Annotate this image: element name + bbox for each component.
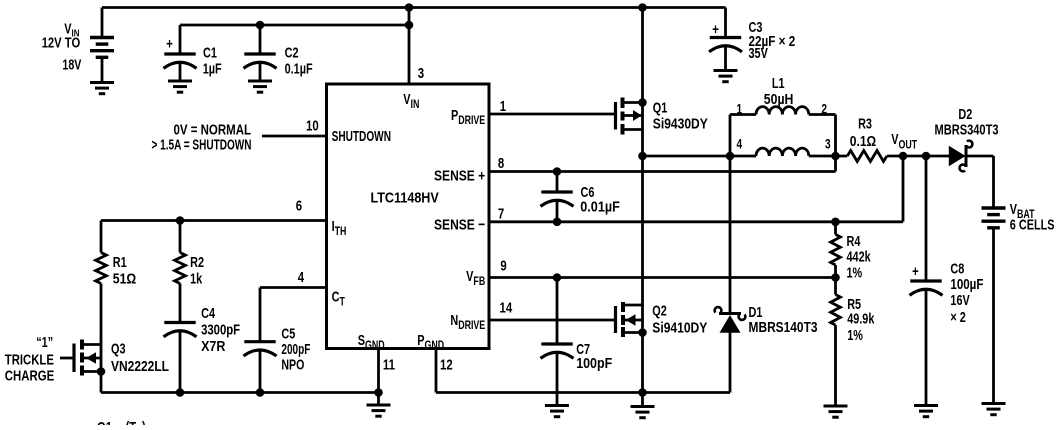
wire L1 top-left link [730, 113, 756, 116]
wire R2 to C4 [179, 284, 182, 323]
svg-text:C3: C3 [749, 18, 763, 35]
svg-text:+: + [912, 262, 919, 279]
svg-text:Q1: Q1 [97, 418, 112, 425]
capacitor C7 100pF [541, 344, 574, 358]
svg-text:C8: C8 [950, 260, 964, 277]
node C6 bottom [553, 218, 562, 227]
node C7 tap on VFB [553, 273, 562, 282]
wire R5 bottom lead [834, 325, 837, 406]
svg-text:1%: 1% [847, 264, 863, 281]
wire D2 cathode to VBAT [966, 155, 994, 158]
capacitor C8 100uF [910, 281, 943, 295]
svg-text:C1: C1 [203, 44, 217, 61]
ground (C8) [914, 406, 938, 417]
node Q3 source/body tie [97, 367, 106, 376]
transistor Q3 VN2222LL NMOS [72, 344, 75, 373]
svg-text:0.1µF: 0.1µF [285, 60, 313, 77]
svg-text:0.1Ω: 0.1Ω [850, 134, 877, 150]
svg-text:8: 8 [498, 154, 505, 171]
svg-text:SHUTDOWN: SHUTDOWN [332, 128, 391, 145]
svg-text:R1: R1 [113, 253, 127, 270]
svg-text:C6: C6 [581, 183, 595, 200]
node junction rail1/pin3 drop [405, 3, 414, 12]
capacitor C2 0.1uF [244, 54, 277, 68]
wire PDRIVE pin 1 to Q1 gate [489, 113, 616, 116]
svg-text:0V = NORMAL: 0V = NORMAL [174, 123, 252, 139]
svg-text:11: 11 [383, 356, 395, 373]
svg-text:VN2222LL: VN2222LL [111, 359, 169, 375]
svg-text:C2: C2 [285, 44, 299, 61]
resistor R4 442k [831, 234, 841, 265]
svg-text:Q1: Q1 [653, 99, 667, 116]
wire R4 top lead [834, 222, 837, 235]
diode D1 MBRS140T3 [715, 307, 746, 332]
wire VIN top rail [102, 6, 726, 9]
wire power ground rail [436, 391, 730, 394]
resistor R3 0.1ohm [847, 151, 887, 162]
diode D2 MBRS340T3 [949, 141, 972, 172]
svg-text:4: 4 [737, 136, 743, 152]
svg-text:1µF: 1µF [203, 60, 222, 77]
node Q2 ground tap [638, 388, 647, 397]
ground (R5) [824, 406, 848, 417]
svg-text:× 2: × 2 [950, 308, 965, 325]
svg-text:MBRS140T3: MBRS140T3 [749, 320, 818, 336]
svg-text:6: 6 [296, 197, 302, 214]
svg-text:MBRS340T3: MBRS340T3 [935, 122, 999, 138]
wire ITH rail pin 6 [101, 219, 327, 222]
wire bypass rail (C1/C2) [180, 24, 409, 27]
wire D1 anode lead [729, 331, 732, 393]
ground (C3) [714, 71, 738, 82]
svg-text:X7R: X7R [201, 339, 226, 355]
transistor Q2 Si9410DY NMOS [614, 306, 617, 333]
wire R3 to VOUT [887, 155, 952, 158]
ground (C2) [248, 81, 272, 92]
svg-text:+: + [712, 20, 719, 37]
wire R1 to Q3 drain [100, 284, 103, 393]
node R4/R5 junction VFB [831, 273, 840, 282]
capacitor C4 3300pF [164, 323, 197, 337]
svg-text:TRICKLE: TRICKLE [5, 352, 54, 368]
capacitor C3 22uF x2 [709, 38, 742, 52]
wire R4/R5 link [834, 265, 837, 295]
node junction rail1/Q1 source [638, 3, 647, 12]
wire L1 bottom to R3 [809, 155, 848, 158]
transistor Q1 Si9430DY PMOS [614, 102, 617, 130]
svg-text:R3: R3 [858, 115, 872, 132]
svg-text:12V TO: 12V TO [42, 36, 80, 52]
svg-text:C5: C5 [281, 325, 295, 342]
ground (Q2 source) [631, 407, 655, 418]
wire VFB pin 9 [489, 276, 836, 279]
resistor R5 49.9k [831, 295, 841, 326]
wire VIN battery top lead [101, 8, 104, 40]
node Q2 source/body tie [638, 328, 647, 337]
svg-text:442k: 442k [847, 248, 872, 265]
svg-text:Si9430DY: Si9430DY [653, 117, 708, 133]
svg-text:50µH: 50µH [764, 92, 794, 108]
svg-text:D1: D1 [749, 303, 763, 320]
node R2 top [176, 216, 185, 225]
wire R2 top lead [179, 221, 182, 253]
node C5 bottom [256, 388, 265, 397]
wire shutdown input pin 10 [262, 135, 327, 138]
svg-text:“1”: “1” [36, 333, 53, 350]
capacitor C5 200pF [244, 342, 277, 356]
wire SENSE- pin 7 [489, 220, 903, 223]
node SGND junction [374, 388, 383, 397]
svg-text:3300pF: 3300pF [201, 323, 240, 339]
node junction rail2/C2 [256, 21, 265, 30]
svg-text:NPO: NPO [281, 358, 304, 374]
svg-text:CHARGE: CHARGE [5, 368, 55, 384]
svg-text:7: 7 [498, 205, 504, 222]
svg-text:16V: 16V [950, 292, 970, 309]
node switch junction L1 left/D1 [726, 152, 735, 161]
svg-text:49.9k: 49.9k [847, 310, 875, 327]
wire SGND pin 11 stub [377, 349, 380, 393]
svg-text:14: 14 [500, 299, 513, 316]
capacitor C1 1uF [164, 54, 197, 68]
svg-text:9: 9 [500, 257, 506, 274]
battery VBAT 6 cells [982, 208, 1006, 228]
svg-text:4: 4 [298, 268, 305, 285]
ground (C1) [168, 81, 192, 92]
svg-text:> 1.5A = SHUTDOWN: > 1.5A = SHUTDOWN [152, 138, 252, 154]
capacitor C6 0.01uF [541, 192, 574, 206]
wire Q1 source-drain vertical [641, 8, 644, 157]
node L1/R3/SENSE+ junction [831, 152, 840, 161]
svg-text:C7: C7 [576, 340, 590, 357]
svg-text:C4: C4 [201, 305, 216, 322]
svg-text:+: + [166, 35, 173, 52]
inductor L1 bottom winding [756, 148, 809, 156]
wire Q3 gate lead [60, 357, 74, 360]
svg-text:R4: R4 [847, 232, 862, 249]
svg-text:35V: 35V [749, 45, 769, 62]
wire R1 top lead [100, 221, 103, 253]
svg-text:SENSE −: SENSE − [434, 217, 485, 234]
node C4 bottom [176, 388, 185, 397]
wire analog ground rail [101, 391, 379, 394]
battery V1 VIN 12V-18V source [90, 38, 114, 58]
svg-text:Si9410DY: Si9410DY [652, 320, 707, 336]
resistor R1 51ohm [96, 253, 107, 284]
svg-text:51Ω: 51Ω [113, 271, 137, 287]
svg-text:SENSE +: SENSE + [434, 168, 485, 185]
wire PGND pin 12 stub [435, 349, 438, 393]
wire Q2 drain-source vertical [641, 156, 644, 407]
wire switch node [643, 155, 757, 158]
ground (VBAT) [982, 404, 1006, 415]
svg-text:): ) [142, 418, 146, 425]
svg-text:(T: (T [126, 418, 137, 425]
wire CT pin 4 [260, 286, 327, 289]
svg-text:3: 3 [825, 136, 831, 152]
node junction rail2/pin3 drop [405, 21, 414, 30]
svg-text:2: 2 [821, 101, 827, 117]
op-amp U1 LTC1148HV box [327, 84, 490, 349]
svg-text:R2: R2 [190, 253, 204, 270]
svg-text:LTC1148HV: LTC1148HV [371, 189, 439, 206]
svg-text:1%: 1% [847, 326, 863, 343]
svg-text:18V: 18V [62, 57, 81, 73]
wire SENSE+ pin 8 [489, 170, 836, 173]
node C6 top [553, 167, 562, 176]
svg-text:100pF: 100pF [576, 356, 612, 372]
svg-text:L1: L1 [772, 74, 785, 91]
svg-text:Q3: Q3 [111, 340, 125, 357]
svg-text:1: 1 [737, 101, 743, 117]
inductor L1 50uH top winding [756, 107, 809, 115]
svg-text:200pF: 200pF [281, 342, 310, 358]
svg-text:D2: D2 [958, 105, 972, 122]
node Q1 source/body tie [638, 98, 647, 107]
node VOUT [899, 152, 908, 161]
wire D1 cathode lead [729, 156, 732, 313]
ground (SGND) [367, 405, 391, 416]
svg-text:Q2: Q2 [652, 302, 666, 319]
wire NDRIVE pin 14 to Q2 gate [489, 319, 616, 322]
svg-text:6 CELLS: 6 CELLS [1010, 216, 1055, 233]
ground (C7) [545, 406, 569, 417]
svg-text:1: 1 [500, 97, 507, 114]
node switch junction Q1/Q2 [638, 152, 647, 161]
svg-text:10: 10 [306, 117, 319, 134]
node C8 tap [922, 152, 931, 161]
resistor R2 1k [175, 253, 186, 284]
wire VIN pin3 drop [408, 8, 411, 85]
svg-text:3: 3 [418, 64, 424, 81]
svg-text:0.01µF: 0.01µF [580, 200, 620, 216]
wire L1 top-right link [809, 113, 836, 116]
ground (VIN battery) [90, 83, 114, 94]
node R4 top on SENSE- [831, 218, 840, 227]
svg-text:12: 12 [440, 356, 453, 373]
svg-text:1k: 1k [190, 270, 203, 287]
